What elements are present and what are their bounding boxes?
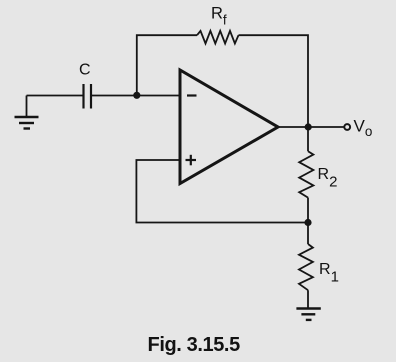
svg-text:Fig. 3.15.5: Fig. 3.15.5 — [148, 334, 241, 356]
wire Rf to right corner and down — [239, 35, 309, 127]
minus input pin — [187, 94, 197, 96]
wire noninverting loop — [136, 160, 308, 223]
op-amp U1 — [180, 70, 278, 184]
ground left — [15, 96, 39, 129]
ground bottom — [296, 309, 320, 320]
node output junction dot — [305, 123, 312, 130]
node A junction dot — [133, 92, 140, 99]
capacitor C — [84, 84, 92, 109]
wire input left — [27, 95, 84, 97]
node R2-R1 junction dot — [304, 219, 311, 226]
wire capacitor to node A — [91, 95, 180, 97]
resistor R2 — [299, 127, 313, 223]
wire feedback up — [137, 35, 197, 95]
resistor Rf — [197, 31, 239, 44]
svg-text:C: C — [79, 62, 91, 79]
wire output — [278, 126, 345, 128]
terminal Vo open circle — [344, 124, 350, 130]
resistor R1 — [299, 223, 313, 309]
plus input pin — [186, 155, 197, 166]
